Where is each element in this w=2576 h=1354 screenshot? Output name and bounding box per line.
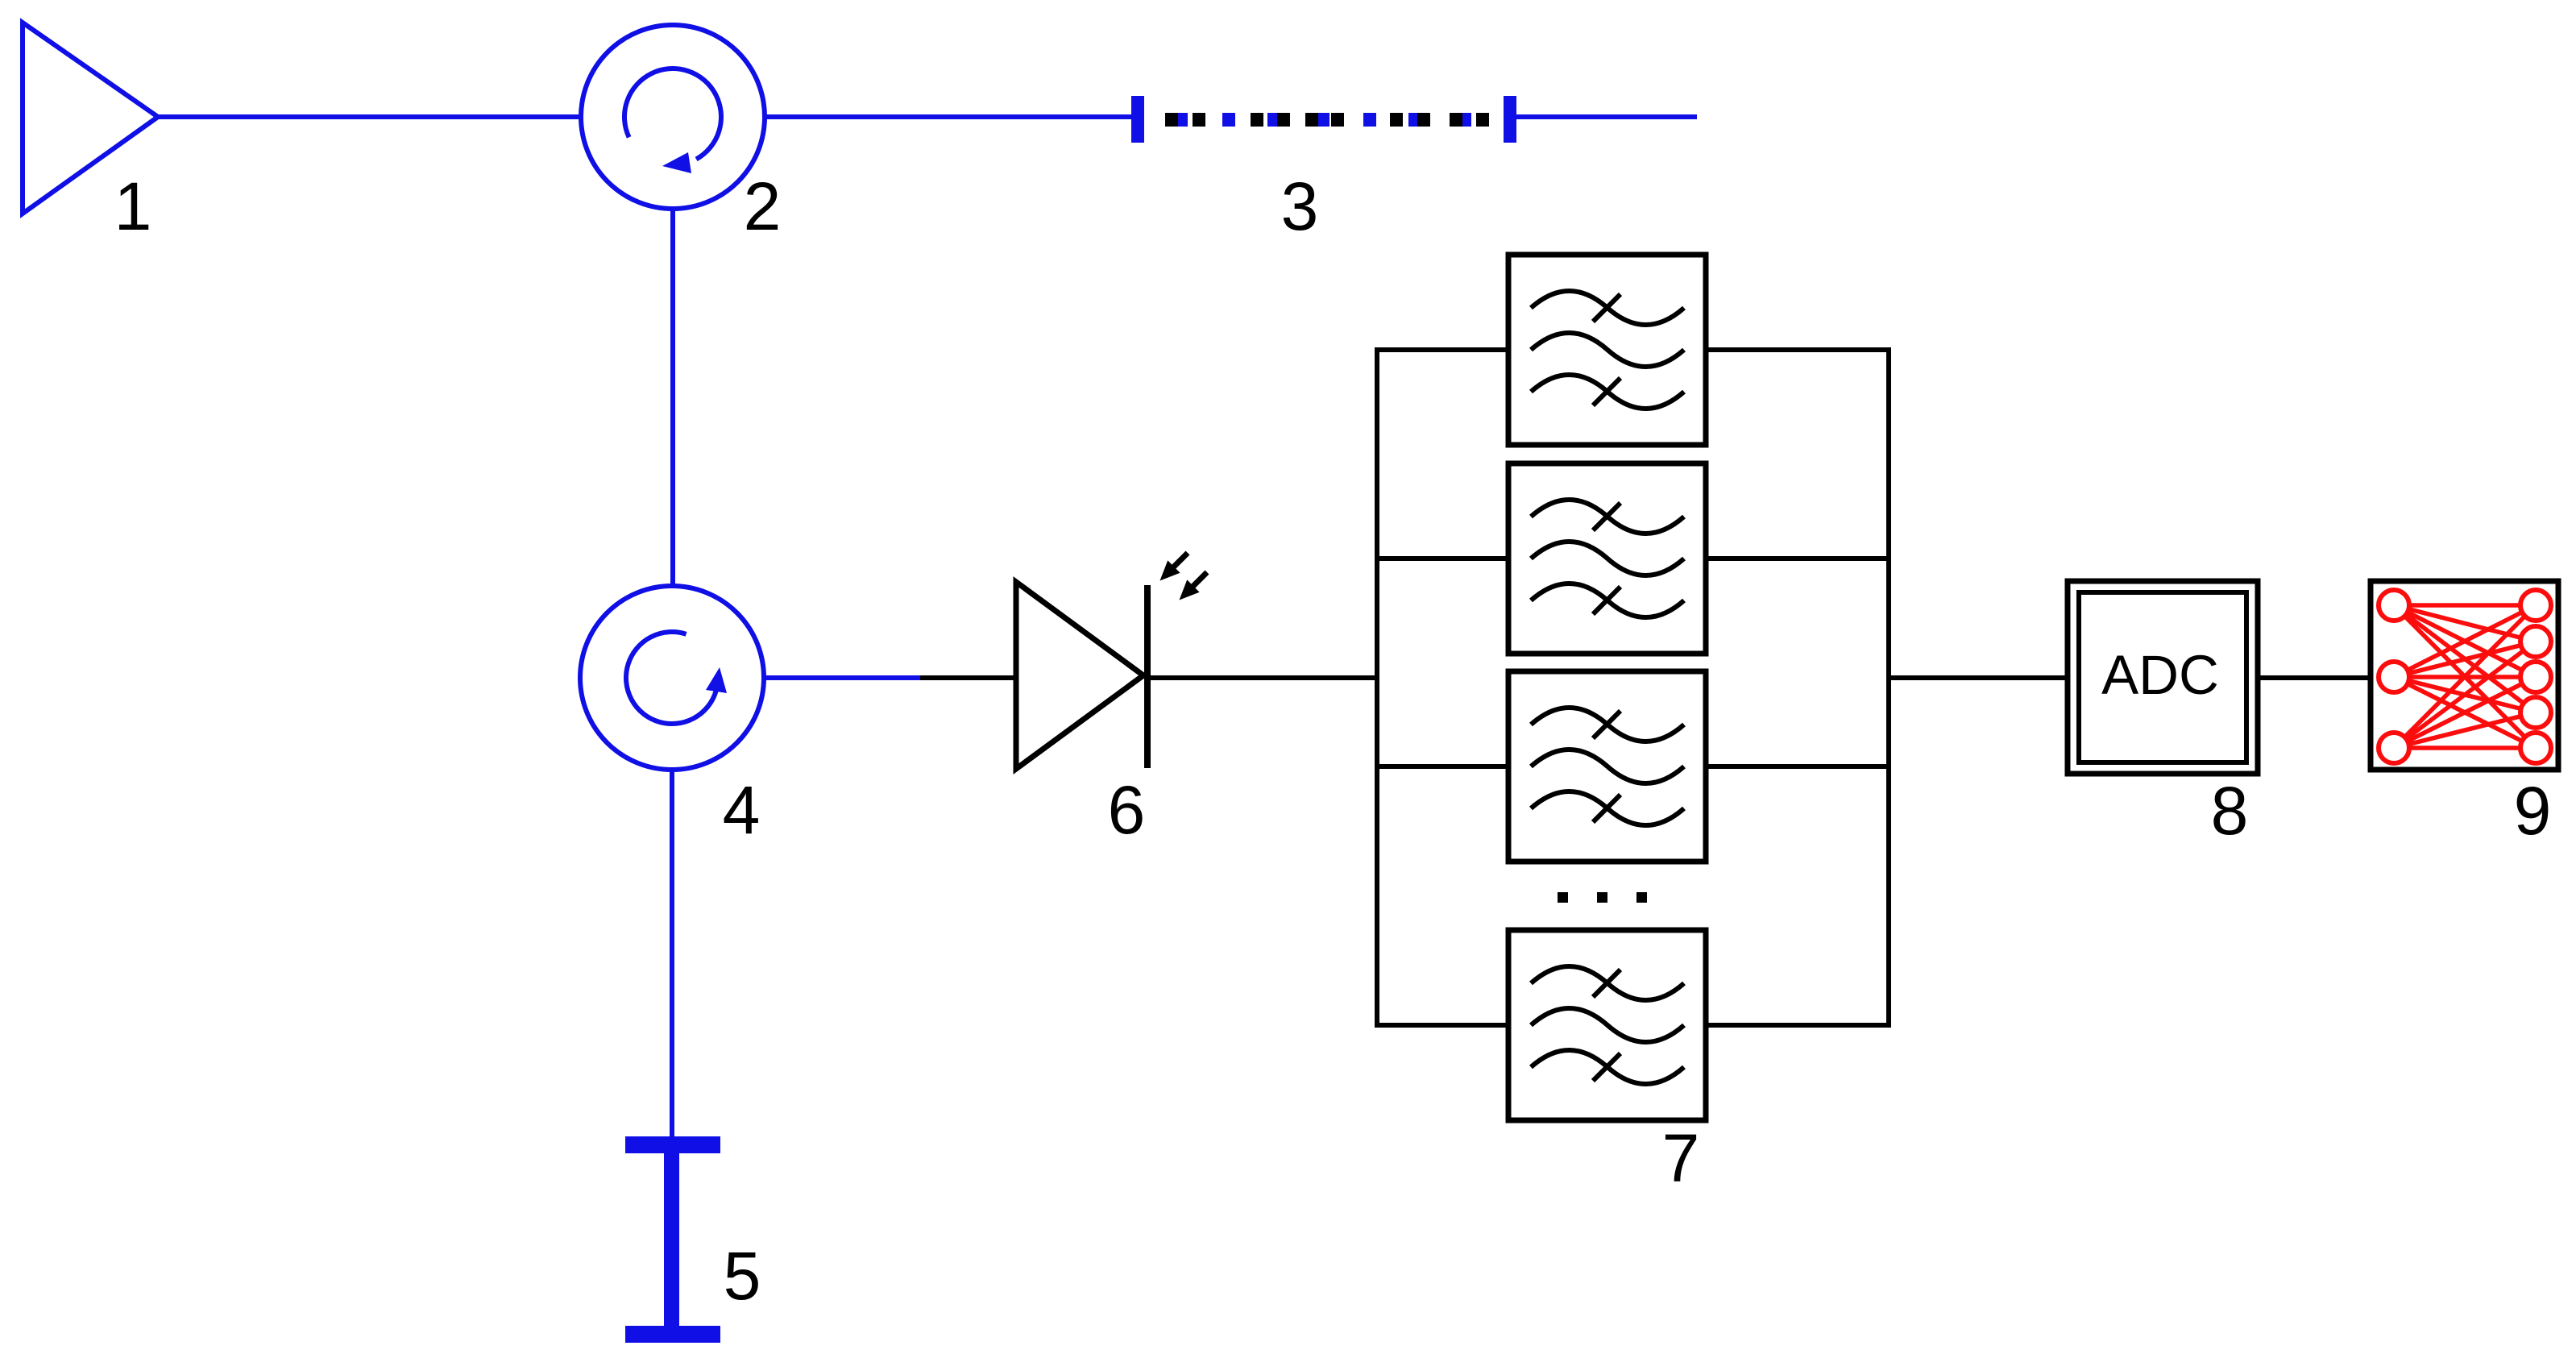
- wire photodiode to filter bank input: [1147, 675, 1379, 680]
- svg-text:4: 4: [723, 772, 761, 848]
- dashed fiber span 3 (blue dashes): [1175, 113, 1471, 127]
- wire circulator 4 to reflector 5: [670, 770, 674, 1138]
- wire filter 1 to right bus: [1704, 347, 1891, 352]
- wire filter 3 to right bus: [1704, 764, 1891, 769]
- neural network connections: [2394, 605, 2536, 748]
- svg-text:6: 6: [1108, 772, 1146, 848]
- svg-text:ADC: ADC: [2101, 644, 2219, 706]
- svg-text:5: 5: [724, 1238, 761, 1314]
- dashed fiber span 3 (black dashes): [1165, 113, 1489, 127]
- wire filter 4 to right bus: [1704, 1023, 1891, 1028]
- wire left bus to filter 3: [1375, 764, 1510, 769]
- wire left bus to filter 1: [1375, 347, 1510, 352]
- filter bank output bus (right): [1886, 347, 1891, 1028]
- wire fiber 3 open end: [1516, 114, 1697, 119]
- ellipsis dots between filter 3 and filter 4: [1558, 892, 1647, 903]
- svg-text:3: 3: [1281, 168, 1319, 244]
- circulator 2: [581, 25, 765, 209]
- laser source 1: [23, 23, 158, 214]
- circulator 4: [580, 586, 764, 770]
- wire filter 2 to right bus: [1704, 556, 1891, 561]
- svg-text:2: 2: [744, 168, 782, 244]
- neural network output neurons: [2520, 590, 2551, 763]
- wire left bus to filter 2: [1375, 556, 1510, 561]
- photodiode 6: [1016, 582, 1147, 769]
- svg-text:7: 7: [1662, 1120, 1700, 1196]
- wire circulator 2 to circulator 4: [670, 209, 675, 588]
- band-pass filter box 1 of 7: [1508, 255, 1706, 445]
- wire laser to circulator 2: [158, 114, 583, 119]
- wire circulator 2 to fiber section 3: [765, 114, 1138, 119]
- neural network box 9: [2371, 581, 2558, 770]
- ADC 8: [2068, 581, 2258, 774]
- filter bank input bus (left): [1375, 347, 1379, 1028]
- incident light arrow a of photodiode 6: [1163, 553, 1188, 578]
- svg-text:9: 9: [2514, 773, 2552, 849]
- band-pass filter box 2 of 7: [1508, 463, 1706, 654]
- band-pass filter box 4 of 7: [1508, 930, 1706, 1120]
- wire ADC to neural network 9: [2258, 675, 2371, 680]
- incident light arrow b of photodiode 6: [1182, 572, 1207, 597]
- wire circulator 4 to photodiode (fiber part): [764, 675, 920, 680]
- wire filter bank output to ADC: [1889, 675, 2068, 680]
- fiber splice tick left of 3: [1131, 96, 1144, 143]
- band-pass filter box 3 of 7: [1508, 671, 1706, 862]
- svg-text:1: 1: [114, 168, 152, 244]
- wire fiber to photodiode (electrical part): [920, 675, 1016, 680]
- fiber splice tick right of 3: [1504, 96, 1516, 143]
- reflector 5: [625, 1136, 720, 1343]
- neural network input neurons: [2379, 590, 2409, 763]
- wire left bus to filter 4: [1375, 1023, 1510, 1028]
- svg-text:8: 8: [2211, 773, 2249, 849]
